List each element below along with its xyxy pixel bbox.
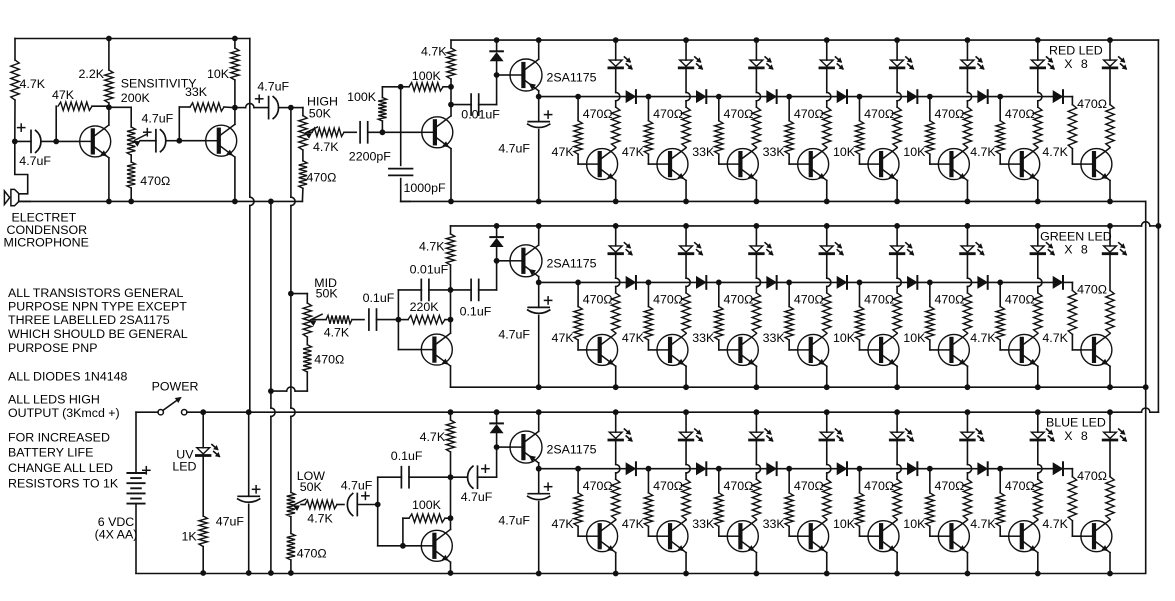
svg-text:470Ω: 470Ω bbox=[935, 107, 965, 121]
svg-text:470Ω: 470Ω bbox=[794, 107, 824, 121]
svg-text:470Ω: 470Ω bbox=[314, 353, 344, 367]
resistor 470 ohm stage 1 BLUE bbox=[615, 441, 617, 464]
svg-text:2200pF: 2200pF bbox=[349, 149, 391, 163]
capacitor 4.7uF BLUE bus electrolytic bbox=[538, 469, 540, 494]
transistor NPN stage 6 RED bbox=[930, 163, 939, 165]
diode RED chain 3 bbox=[767, 91, 776, 102]
wiper arrow VR2 bbox=[306, 127, 318, 133]
LED DB6 BLUE bbox=[965, 409, 971, 415]
transistor NPN stage 5 BLUE bbox=[860, 535, 869, 537]
node A high filter bbox=[380, 129, 386, 135]
node feed stage 4 BLUE bbox=[786, 466, 792, 472]
LED DB4 BLUE bbox=[824, 409, 830, 415]
svg-text:10K: 10K bbox=[207, 67, 230, 81]
node emitter ground stage 2 RED bbox=[683, 199, 689, 205]
svg-text:33K: 33K bbox=[692, 517, 715, 531]
transistor 2SA1175 GREEN PNP bbox=[497, 260, 510, 262]
wiper arrow VR3 bbox=[311, 314, 323, 320]
svg-text:47uF: 47uF bbox=[216, 515, 245, 529]
transistor NPN stage 8 RED bbox=[1072, 163, 1081, 165]
resistor 470 ohm stage 4 GREEN bbox=[826, 255, 828, 278]
node feed stage 6 BLUE bbox=[927, 466, 933, 472]
diode GREEN chain 5 bbox=[908, 277, 917, 288]
svg-text:10K: 10K bbox=[833, 517, 856, 531]
svg-text:100K: 100K bbox=[412, 69, 442, 83]
node feed stage 5 BLUE bbox=[857, 466, 863, 472]
svg-text:4.7uF: 4.7uF bbox=[341, 478, 373, 492]
svg-text:470Ω: 470Ω bbox=[1077, 97, 1107, 111]
wire BLUE drive bus bbox=[539, 468, 1063, 470]
potentiometer VR4 LOW 50K bbox=[287, 492, 295, 516]
resistor 4.7K base stage 8 GREEN bbox=[1068, 290, 1076, 334]
node emitter ground stage 3 BLUE bbox=[754, 571, 760, 577]
wire GREEN drive bus bbox=[539, 281, 1063, 283]
svg-text:4.7K: 4.7K bbox=[1042, 145, 1068, 159]
resistor 470 ohm stage 6 RED bbox=[966, 69, 968, 92]
resistor 470 ohm stage 6 BLUE bbox=[966, 441, 968, 464]
svg-text:10K: 10K bbox=[833, 145, 856, 159]
LED DR5 RED bbox=[894, 37, 900, 43]
capacitor coupling 0.01uF RED driver bbox=[451, 104, 471, 106]
node mic/cap junction bbox=[12, 139, 18, 145]
node Q1 emitter ground bbox=[106, 199, 112, 205]
diode BLUE chain 6 bbox=[978, 463, 987, 474]
LED DB2 BLUE bbox=[683, 409, 689, 415]
capacitor C6 0.1uF MID bbox=[368, 309, 370, 330]
svg-text:33K: 33K bbox=[692, 331, 715, 345]
svg-text:2SA1175: 2SA1175 bbox=[547, 71, 597, 85]
diode GREEN chain 7 bbox=[1053, 277, 1062, 288]
svg-text:200K: 200K bbox=[121, 91, 151, 105]
LED DG2 GREEN bbox=[683, 223, 689, 229]
svg-text:4.7uF: 4.7uF bbox=[498, 327, 530, 341]
capacitor C5 1000pF bbox=[400, 87, 402, 166]
node emitter ground stage 1 RED bbox=[613, 199, 619, 205]
svg-text:MICROPHONE: MICROPHONE bbox=[4, 235, 89, 249]
capacitor C9 0.1uF LOW feedback bbox=[377, 477, 379, 504]
transistor NPN stage 2 RED bbox=[648, 163, 657, 165]
svg-text:4.7K: 4.7K bbox=[307, 512, 333, 526]
wire BLUE +V rail bbox=[187, 411, 1142, 413]
resistor 470 ohm stage 1 GREEN bbox=[615, 255, 617, 278]
resistor 47K base stage 2 BLUE bbox=[647, 469, 649, 493]
resistor 470 ohm stage 2 GREEN bbox=[685, 255, 687, 278]
transistor NPN stage 5 RED bbox=[860, 163, 869, 165]
transistor Q2 NPN bbox=[179, 140, 205, 142]
resistor 470 ohm stage 5 RED bbox=[896, 69, 898, 92]
node feed stage 5 RED bbox=[857, 94, 863, 100]
svg-text:50K: 50K bbox=[309, 106, 332, 120]
node feed stage 2 RED bbox=[646, 94, 652, 100]
wire preamp ground rail bbox=[19, 200, 303, 202]
node RED bus start bbox=[536, 94, 542, 100]
LED UV indicator bbox=[202, 412, 204, 448]
svg-text:4.7uF: 4.7uF bbox=[498, 142, 530, 156]
diode RED chain 7 bbox=[1053, 91, 1062, 102]
node feed stage 3 BLUE bbox=[716, 466, 722, 472]
svg-text:33K: 33K bbox=[763, 517, 786, 531]
node Q2 base bbox=[176, 138, 182, 144]
resistor 470 ohm stage 5 GREEN bbox=[896, 255, 898, 278]
resistor R4 470 ohm below VR1 bbox=[127, 162, 135, 188]
resistor 470 ohm stage 2 BLUE bbox=[685, 441, 687, 464]
resistor 470 ohm stage 8 BLUE bbox=[1109, 441, 1111, 476]
node C low filter bbox=[450, 477, 452, 518]
node emitter ground stage 3 RED bbox=[754, 199, 760, 205]
svg-text:47K: 47K bbox=[52, 88, 75, 102]
node feed stage 7 BLUE bbox=[997, 466, 1003, 472]
transistor NPN stage 6 GREEN bbox=[930, 349, 939, 351]
resistor 4.7K base stage 7 RED bbox=[999, 97, 1001, 121]
node feed stage 1 GREEN bbox=[575, 280, 581, 286]
svg-text:4.7K: 4.7K bbox=[1042, 517, 1068, 531]
node emitter ground stage 8 GREEN bbox=[1107, 384, 1113, 390]
wiper arrow VR4 bbox=[294, 499, 306, 505]
svg-text:POWER: POWER bbox=[152, 379, 199, 393]
resistor R1 4.7K mic bias bbox=[14, 39, 16, 61]
svg-text:0.1uF: 0.1uF bbox=[460, 304, 492, 318]
transistor NPN stage 4 BLUE bbox=[789, 535, 798, 537]
svg-text:4.7uF: 4.7uF bbox=[19, 154, 51, 168]
transistor Q1 NPN bbox=[56, 140, 79, 142]
node 47uF ground bbox=[246, 570, 252, 576]
resistor 33K base stage 4 RED bbox=[788, 97, 790, 121]
svg-text:470Ω: 470Ω bbox=[723, 293, 753, 307]
transistor NPN stage 1 RED bbox=[578, 163, 587, 165]
svg-text:PURPOSE PNP: PURPOSE PNP bbox=[8, 341, 98, 355]
wire signal riser to MID and LOW bbox=[290, 108, 292, 198]
capacitor coupling 4.7uF BLUE driver bbox=[451, 476, 468, 478]
svg-text:0.1uF: 0.1uF bbox=[363, 291, 395, 305]
resistor 10K base stage 6 GREEN bbox=[929, 282, 931, 306]
node GREEN 2SA1175 base bbox=[494, 258, 500, 264]
switch SW1 power bbox=[158, 410, 163, 415]
resistor 470 ohm stage 6 GREEN bbox=[966, 255, 968, 278]
transistor NPN stage 2 GREEN bbox=[648, 349, 657, 351]
potentiometer VR2 HIGH 50K bbox=[291, 107, 303, 109]
svg-text:470Ω: 470Ω bbox=[723, 107, 753, 121]
svg-text:470Ω: 470Ω bbox=[794, 479, 824, 493]
svg-text:10K: 10K bbox=[903, 331, 926, 345]
LED DR2 RED bbox=[683, 37, 689, 43]
capacitor 4.7uF GREEN bus electrolytic bbox=[538, 282, 540, 307]
diode GREEN chain 4 bbox=[837, 277, 846, 288]
resistor R16 470 ohm below VR4 bbox=[290, 517, 292, 534]
node feed stage 1 BLUE bbox=[575, 466, 581, 472]
resistor 33K base stage 3 BLUE bbox=[718, 469, 720, 493]
node Q1 base bbox=[53, 139, 59, 145]
battery B1 6V bbox=[127, 472, 144, 474]
resistor 470 ohm stage 7 GREEN bbox=[1037, 255, 1039, 278]
resistor R11 4.7K collector load bbox=[450, 40, 452, 48]
transistor NPN stage 8 BLUE bbox=[1072, 535, 1081, 537]
capacitor 4.7uF RED bus electrolytic bbox=[538, 97, 540, 122]
LED DR6 RED bbox=[965, 37, 971, 43]
node C high filter bbox=[448, 84, 454, 90]
node feed stage 2 BLUE bbox=[646, 466, 652, 472]
svg-text:2SA1175: 2SA1175 bbox=[547, 443, 597, 457]
node Q1 collector bbox=[106, 104, 112, 110]
node emitter ground stage 1 BLUE bbox=[613, 571, 619, 577]
resistor 470 ohm stage 5 BLUE bbox=[896, 441, 898, 464]
svg-text:0.1uF: 0.1uF bbox=[391, 449, 423, 463]
LED DG5 GREEN bbox=[894, 223, 900, 229]
node emitter ground stage 4 BLUE bbox=[824, 571, 830, 577]
node feed stage 1 RED bbox=[575, 94, 581, 100]
resistor 470 ohm stage 8 GREEN bbox=[1109, 255, 1111, 290]
node emitter ground stage 4 RED bbox=[824, 199, 830, 205]
svg-text:WHICH SHOULD BE GENERAL: WHICH SHOULD BE GENERAL bbox=[8, 327, 188, 341]
resistor 470 ohm stage 3 GREEN bbox=[755, 255, 757, 278]
node BLUE 2SA1175 base bbox=[494, 444, 500, 450]
resistor 10K base stage 5 RED bbox=[859, 97, 861, 121]
svg-text:X 8: X 8 bbox=[1064, 57, 1088, 71]
svg-text:4.7K: 4.7K bbox=[313, 140, 339, 154]
resistor 33K base stage 4 GREEN bbox=[788, 282, 790, 306]
transistor NPN stage 4 RED bbox=[789, 163, 798, 165]
wire +V riser preamp to switch rail bbox=[249, 39, 251, 198]
diode BLUE chain 7 bbox=[1053, 463, 1062, 474]
capacitor coupling 0.1uF GREEN driver bbox=[451, 289, 472, 291]
resistor R15 4.7K collector load MID bbox=[450, 226, 452, 234]
node MID tap bbox=[288, 291, 294, 297]
resistor R9 100K vertical bbox=[381, 121, 383, 132]
svg-text:33K: 33K bbox=[692, 145, 715, 159]
node ground riser bottom bbox=[268, 570, 274, 576]
node signal bus top bbox=[288, 105, 294, 111]
svg-text:100K: 100K bbox=[412, 498, 442, 512]
LED DB1 BLUE bbox=[613, 409, 619, 415]
svg-text:RED LED: RED LED bbox=[1049, 44, 1103, 58]
svg-text:470Ω: 470Ω bbox=[935, 293, 965, 307]
svg-text:X 8: X 8 bbox=[1064, 429, 1088, 443]
svg-text:4.7uF: 4.7uF bbox=[257, 80, 289, 94]
wire BLUE ground rail bbox=[136, 573, 1146, 575]
resistor R17 4.7K LOW wiper bbox=[301, 504, 305, 506]
resistor 47K base stage 2 GREEN bbox=[647, 282, 649, 306]
svg-text:4.7K: 4.7K bbox=[970, 145, 996, 159]
svg-text:470Ω: 470Ω bbox=[1005, 107, 1035, 121]
svg-text:4.7uF: 4.7uF bbox=[461, 490, 493, 504]
resistor 47K base stage 1 BLUE bbox=[577, 469, 579, 493]
svg-text:4.7K: 4.7K bbox=[324, 326, 350, 340]
svg-text:ALL DIODES 1N4148: ALL DIODES 1N4148 bbox=[8, 370, 127, 384]
resistor 47K base stage 2 RED bbox=[647, 97, 649, 121]
svg-text:ALL TRANSISTORS GENERAL: ALL TRANSISTORS GENERAL bbox=[8, 286, 183, 300]
node emitter ground stage 7 GREEN bbox=[1035, 384, 1041, 390]
svg-text:33K: 33K bbox=[185, 85, 208, 99]
svg-text:470Ω: 470Ω bbox=[297, 547, 327, 561]
svg-text:470Ω: 470Ω bbox=[935, 479, 965, 493]
svg-text:X 8: X 8 bbox=[1064, 243, 1088, 257]
svg-text:470Ω: 470Ω bbox=[864, 107, 894, 121]
capacitor C8 4.7uF LOW bbox=[356, 494, 358, 516]
svg-text:470Ω: 470Ω bbox=[653, 107, 683, 121]
LED DG7 GREEN bbox=[1035, 223, 1041, 229]
node emitter ground stage 2 BLUE bbox=[683, 571, 689, 577]
svg-text:1000pF: 1000pF bbox=[404, 181, 446, 195]
node Q2 collector bbox=[232, 105, 238, 111]
wire RED ground rail bbox=[401, 200, 1146, 202]
node base junction low filter bbox=[377, 505, 379, 546]
LED DR3 RED bbox=[754, 37, 760, 43]
node switch rail UV LED tap bbox=[200, 409, 206, 415]
node feed stage 7 RED bbox=[997, 94, 1003, 100]
svg-text:ALL LEDS HIGH: ALL LEDS HIGH bbox=[8, 393, 100, 407]
svg-text:0.01uF: 0.01uF bbox=[410, 263, 449, 277]
svg-text:CHANGE ALL LED: CHANGE ALL LED bbox=[8, 461, 113, 475]
svg-text:4.7K: 4.7K bbox=[20, 77, 46, 91]
node C mid filter bbox=[450, 290, 452, 320]
diode GREEN chain 3 bbox=[767, 277, 776, 288]
resistor 470 ohm stage 8 RED bbox=[1109, 69, 1111, 104]
transistor Q5 NPN low filter bbox=[403, 545, 421, 547]
resistor 470 ohm stage 3 BLUE bbox=[755, 441, 757, 464]
resistor 470 ohm stage 7 BLUE bbox=[1037, 441, 1039, 464]
svg-text:4.7K: 4.7K bbox=[970, 517, 996, 531]
svg-text:4.7K: 4.7K bbox=[420, 430, 446, 444]
diode RED chain 2 bbox=[697, 91, 706, 102]
resistor 10K base stage 5 GREEN bbox=[859, 282, 861, 306]
node RED 2SA1175 base bbox=[494, 72, 500, 78]
svg-text:1K: 1K bbox=[182, 530, 198, 544]
resistor 10K base stage 5 BLUE bbox=[859, 469, 861, 493]
node feed stage 6 GREEN bbox=[927, 280, 933, 286]
transistor NPN stage 1 GREEN bbox=[578, 349, 587, 351]
diode BLUE chain 2 bbox=[697, 463, 706, 474]
svg-text:100K: 100K bbox=[347, 90, 377, 104]
node feed stage 3 GREEN bbox=[716, 280, 722, 286]
resistor R2 47K feedback Q1 bbox=[55, 106, 57, 141]
node feed stage 2 GREEN bbox=[646, 280, 652, 286]
node B low filter bbox=[448, 474, 454, 480]
wiper arrow VR1 bbox=[135, 135, 147, 141]
capacitor C3 4.7uF output coupling bbox=[235, 107, 246, 109]
svg-text:470Ω: 470Ω bbox=[653, 479, 683, 493]
svg-text:4.7K: 4.7K bbox=[1042, 331, 1068, 345]
svg-text:10K: 10K bbox=[833, 331, 856, 345]
svg-text:470Ω: 470Ω bbox=[653, 293, 683, 307]
resistor R7 470 ohm below VR2 bbox=[302, 150, 304, 161]
wire switch to battery bbox=[136, 411, 158, 413]
svg-text:47K: 47K bbox=[552, 145, 575, 159]
svg-text:RESISTORS TO 1K: RESISTORS TO 1K bbox=[8, 477, 119, 491]
LED DB8 BLUE bbox=[1107, 409, 1113, 415]
transistor NPN stage 5 GREEN bbox=[860, 349, 869, 351]
resistor 47K base stage 1 RED bbox=[577, 97, 579, 121]
diode RED chain 1 bbox=[626, 91, 635, 102]
node BLUE rail 4.7K tee bbox=[448, 409, 454, 415]
node UV LED ground bbox=[200, 570, 206, 576]
resistor R19 4.7K collector load LOW bbox=[450, 412, 452, 420]
transistor Q4 NPN mid filter bbox=[397, 320, 399, 350]
svg-text:33K: 33K bbox=[763, 331, 786, 345]
wire preamp +V top rail bbox=[15, 38, 250, 40]
LED DB7 BLUE bbox=[1035, 409, 1041, 415]
svg-text:BLUE LED: BLUE LED bbox=[1046, 416, 1106, 430]
resistor 10K base stage 6 BLUE bbox=[929, 469, 931, 493]
svg-text:50K: 50K bbox=[316, 287, 339, 301]
potentiometer VR1 SENSITIVITY 200K bbox=[109, 106, 131, 108]
node A mid filter bbox=[396, 317, 402, 323]
LED DR1 RED bbox=[613, 37, 619, 43]
wire GREEN ground rail bbox=[451, 386, 1146, 388]
resistor R5 33K feedback Q2 bbox=[178, 107, 180, 141]
svg-text:47K: 47K bbox=[552, 331, 575, 345]
resistor 470 ohm stage 1 RED bbox=[615, 69, 617, 92]
capacitor C10 47uF supply bbox=[248, 412, 250, 496]
capacitor C7 0.01uF MID feedback bbox=[397, 290, 399, 320]
resistor R20 1K UV LED bbox=[202, 457, 204, 516]
transistor 2SA1175 BLUE PNP bbox=[497, 446, 510, 448]
svg-text:470Ω: 470Ω bbox=[1077, 469, 1107, 483]
svg-text:47K: 47K bbox=[622, 145, 645, 159]
resistor 47K base stage 1 GREEN bbox=[577, 282, 579, 306]
transistor NPN stage 4 GREEN bbox=[789, 349, 798, 351]
resistor 470 ohm stage 3 RED bbox=[755, 69, 757, 92]
svg-text:47K: 47K bbox=[552, 517, 575, 531]
svg-text:47K: 47K bbox=[622, 331, 645, 345]
node LOW pot ground bbox=[288, 570, 294, 576]
svg-text:4.7K: 4.7K bbox=[970, 331, 996, 345]
svg-text:GREEN LED: GREEN LED bbox=[1040, 229, 1112, 243]
svg-text:47K: 47K bbox=[622, 517, 645, 531]
node emitter ground stage 5 RED bbox=[894, 199, 900, 205]
resistor 4.7K base stage 8 BLUE bbox=[1068, 477, 1076, 521]
resistor 33K base stage 4 BLUE bbox=[788, 469, 790, 493]
svg-text:4.7K: 4.7K bbox=[421, 45, 447, 59]
svg-text:OUTPUT (3Kmcd +): OUTPUT (3Kmcd +) bbox=[8, 406, 120, 420]
svg-text:0.01uF: 0.01uF bbox=[461, 108, 500, 122]
svg-text:470Ω: 470Ω bbox=[1005, 293, 1035, 307]
diode RED chain 4 bbox=[837, 91, 846, 102]
node emitter ground stage 1 GREEN bbox=[613, 384, 619, 390]
svg-text:2.2K: 2.2K bbox=[79, 67, 105, 81]
resistor R13 4.7K MID wiper bbox=[313, 319, 327, 321]
node feed stage 4 RED bbox=[786, 94, 792, 100]
svg-text:470Ω: 470Ω bbox=[307, 170, 337, 184]
wire ground riser right side bbox=[1145, 201, 1147, 573]
resistor 4.7K base stage 7 GREEN bbox=[999, 282, 1001, 306]
svg-text:470Ω: 470Ω bbox=[140, 174, 170, 188]
node emitter ground stage 4 GREEN bbox=[824, 384, 830, 390]
wire ground riser preamp to bottom rail bbox=[268, 199, 274, 205]
node B high filter bbox=[398, 84, 404, 90]
LED DG8 GREEN bbox=[1107, 223, 1113, 229]
svg-text:PURPOSE NPN TYPE EXCEPT: PURPOSE NPN TYPE EXCEPT bbox=[8, 300, 187, 314]
transistor NPN stage 7 BLUE bbox=[1000, 535, 1009, 537]
transistor NPN stage 8 GREEN bbox=[1072, 349, 1081, 351]
node feed stage 3 RED bbox=[716, 94, 722, 100]
diode RED chain 5 bbox=[908, 91, 917, 102]
transistor NPN stage 7 GREEN bbox=[1000, 349, 1009, 351]
wire GREEN +V rail bbox=[451, 225, 1142, 227]
diode GREEN chain 2 bbox=[697, 277, 706, 288]
resistor R14 220K MID feedback bbox=[398, 319, 408, 321]
capacitor C2 4.7uF interstage bbox=[140, 140, 156, 142]
node ground riser GREEN ground bbox=[1143, 384, 1149, 390]
LED DG3 GREEN bbox=[754, 223, 760, 229]
node emitter ground stage 8 BLUE bbox=[1107, 571, 1113, 577]
wire +V riser right side bbox=[1157, 40, 1159, 412]
transistor NPN stage 1 BLUE bbox=[578, 535, 587, 537]
LED DB3 BLUE bbox=[754, 409, 760, 415]
svg-text:33K: 33K bbox=[763, 145, 786, 159]
resistor 33K base stage 3 GREEN bbox=[718, 282, 720, 306]
node feed stage 6 RED bbox=[927, 94, 933, 100]
node feed stage 4 GREEN bbox=[786, 280, 792, 286]
resistor 10K base stage 6 RED bbox=[929, 97, 931, 121]
